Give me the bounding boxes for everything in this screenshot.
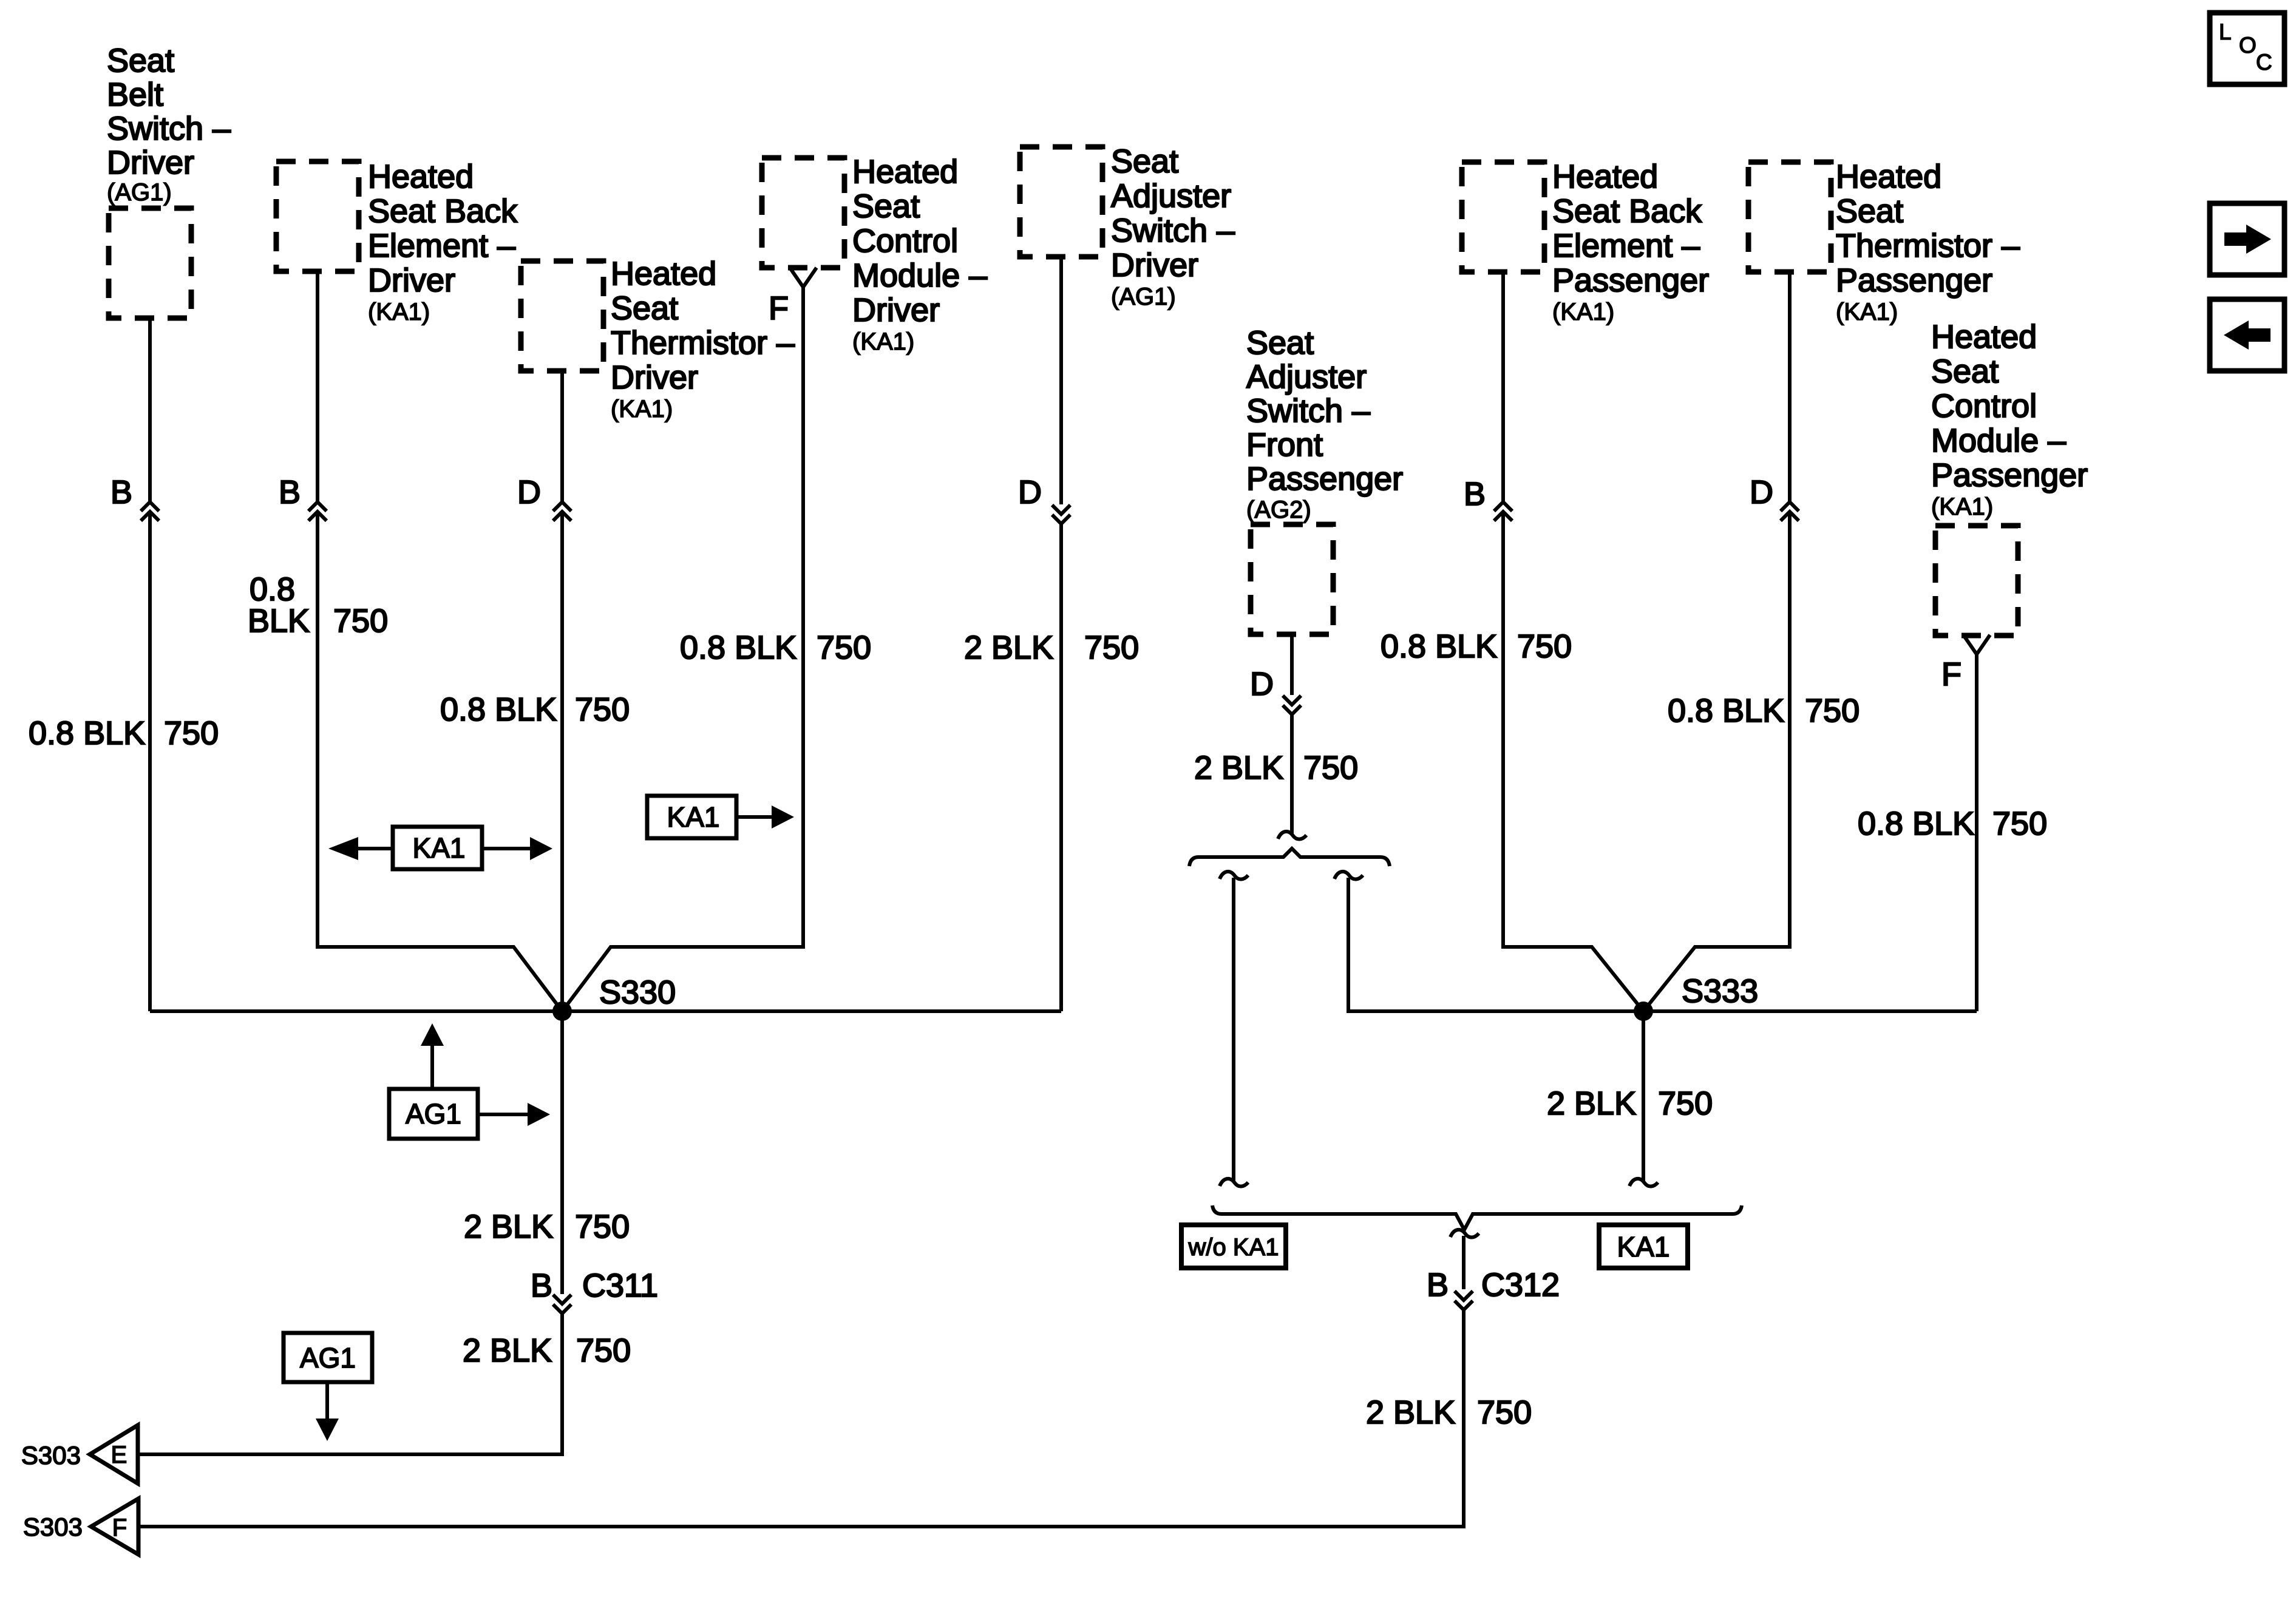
svg-text:0.8 BLK: 0.8 BLK [1381, 628, 1497, 665]
svg-text:Passenger: Passenger [1246, 461, 1403, 497]
svg-text:750: 750 [1303, 750, 1358, 786]
svg-text:w/o KA1: w/o KA1 [1188, 1234, 1279, 1261]
svg-text:Seat: Seat [107, 42, 174, 79]
svg-text:C312: C312 [1481, 1267, 1560, 1303]
svg-text:Module –: Module – [852, 257, 987, 294]
svg-text:B: B [1464, 476, 1486, 512]
svg-text:Seat: Seat [1111, 143, 1178, 180]
svg-text:S330: S330 [599, 974, 676, 1011]
svg-text:750: 750 [1992, 805, 2047, 842]
svg-text:D: D [1750, 474, 1773, 510]
svg-text:O: O [2239, 33, 2257, 58]
svg-text:750: 750 [575, 1209, 630, 1245]
svg-text:Switch –: Switch – [1111, 212, 1235, 249]
svg-text:Seat Back: Seat Back [1552, 193, 1702, 229]
svg-text:AG1: AG1 [300, 1342, 356, 1374]
svg-text:2 BLK: 2 BLK [964, 629, 1053, 666]
svg-text:Heated: Heated [1836, 158, 1941, 195]
svg-text:Element –: Element – [1552, 228, 1700, 264]
svg-text:Module –: Module – [1931, 422, 2066, 459]
svg-text:(KA1): (KA1) [368, 299, 430, 325]
svg-text:Heated: Heated [1552, 158, 1658, 195]
svg-text:2 BLK: 2 BLK [464, 1209, 553, 1245]
svg-text:750: 750 [576, 1332, 631, 1369]
svg-text:750: 750 [1805, 693, 1860, 729]
svg-text:Seat: Seat [1931, 353, 1999, 390]
svg-text:Passenger: Passenger [1931, 457, 2088, 493]
svg-text:Seat Back: Seat Back [368, 193, 518, 229]
svg-text:Seat: Seat [1836, 193, 1903, 229]
svg-text:(AG1): (AG1) [1111, 283, 1176, 310]
svg-text:F: F [1941, 656, 1961, 693]
svg-text:Driver: Driver [368, 262, 455, 299]
svg-text:D: D [517, 474, 541, 510]
svg-text:Thermistor –: Thermistor – [1836, 228, 2020, 264]
svg-text:Control: Control [852, 223, 958, 259]
svg-text:Adjuster: Adjuster [1111, 178, 1231, 214]
svg-text:2 BLK: 2 BLK [1366, 1394, 1455, 1431]
svg-text:(KA1): (KA1) [611, 396, 673, 422]
svg-text:Driver: Driver [1111, 247, 1198, 283]
svg-text:2 BLK: 2 BLK [1194, 750, 1283, 786]
svg-text:B: B [110, 474, 132, 510]
svg-text:(KA1): (KA1) [1931, 493, 1993, 520]
svg-text:Seat: Seat [852, 188, 920, 225]
svg-text:Front: Front [1246, 427, 1323, 463]
svg-text:B: B [1427, 1267, 1449, 1303]
svg-text:0.8: 0.8 [250, 571, 295, 608]
svg-text:Heated: Heated [1931, 319, 2037, 355]
svg-text:Thermistor –: Thermistor – [611, 325, 795, 361]
svg-text:Passenger: Passenger [1836, 262, 1992, 299]
svg-text:Control: Control [1931, 388, 2037, 424]
svg-text:B: B [279, 474, 301, 510]
svg-text:Heated: Heated [611, 256, 716, 292]
svg-text:KA1: KA1 [413, 832, 466, 864]
svg-text:(KA1): (KA1) [852, 328, 914, 355]
svg-text:750: 750 [817, 629, 871, 666]
svg-text:C: C [2256, 50, 2272, 75]
svg-text:L: L [2219, 19, 2232, 44]
svg-text:D: D [1250, 666, 1274, 702]
svg-text:S303: S303 [23, 1513, 83, 1541]
svg-text:Driver: Driver [611, 359, 698, 396]
svg-text:Heated: Heated [368, 158, 474, 195]
svg-text:F: F [112, 1514, 127, 1541]
svg-text:Passenger: Passenger [1552, 262, 1709, 299]
svg-text:0.8 BLK: 0.8 BLK [680, 629, 796, 666]
svg-text:Switch –: Switch – [107, 110, 231, 147]
svg-text:Switch –: Switch – [1246, 393, 1370, 429]
svg-text:2 BLK: 2 BLK [463, 1332, 552, 1369]
svg-text:(KA1): (KA1) [1836, 299, 1898, 325]
svg-text:(AG2): (AG2) [1246, 497, 1311, 523]
svg-text:750: 750 [1477, 1394, 1532, 1431]
svg-text:Belt: Belt [107, 76, 163, 113]
svg-text:750: 750 [333, 603, 388, 639]
svg-text:E: E [111, 1442, 127, 1468]
svg-text:Seat: Seat [611, 290, 678, 327]
svg-text:750: 750 [1084, 629, 1139, 666]
svg-text:Heated: Heated [852, 154, 958, 190]
svg-text:750: 750 [1517, 628, 1572, 665]
svg-text:Adjuster: Adjuster [1246, 359, 1367, 395]
svg-text:0.8 BLK: 0.8 BLK [29, 715, 145, 751]
svg-text:F: F [769, 290, 789, 327]
svg-text:(AG1): (AG1) [107, 179, 172, 206]
svg-text:0.8 BLK: 0.8 BLK [440, 691, 557, 728]
svg-text:S333: S333 [1682, 973, 1758, 1009]
svg-text:0.8 BLK: 0.8 BLK [1668, 693, 1784, 729]
svg-text:Driver: Driver [852, 292, 940, 328]
svg-text:Seat: Seat [1246, 325, 1314, 361]
svg-text:0.8 BLK: 0.8 BLK [1858, 805, 1974, 842]
svg-text:Element –: Element – [368, 228, 515, 264]
svg-text:KA1: KA1 [667, 801, 720, 833]
svg-text:S303: S303 [21, 1441, 81, 1470]
svg-text:C311: C311 [582, 1267, 658, 1304]
svg-text:750: 750 [575, 691, 630, 728]
svg-text:(KA1): (KA1) [1552, 299, 1614, 325]
svg-text:750: 750 [1658, 1085, 1713, 1122]
svg-text:B: B [531, 1267, 552, 1304]
svg-text:AG1: AG1 [406, 1098, 461, 1130]
svg-text:Driver: Driver [107, 144, 194, 181]
svg-text:2 BLK: 2 BLK [1547, 1085, 1636, 1122]
svg-text:750: 750 [164, 715, 219, 751]
svg-text:BLK: BLK [248, 603, 310, 639]
svg-text:D: D [1018, 474, 1042, 510]
svg-text:KA1: KA1 [1617, 1231, 1670, 1263]
